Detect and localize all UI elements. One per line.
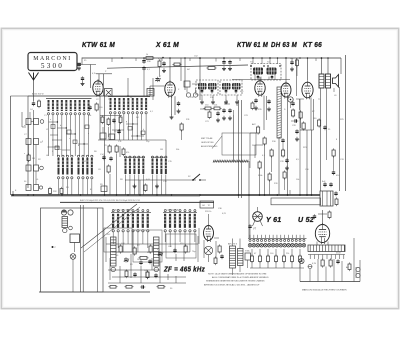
svg-text:KT 66: KT 66 — [303, 40, 323, 49]
wire V2 grid left — [150, 85, 165, 87]
trimmer capacitor C19 — [124, 258, 128, 260]
svg-text:C44 310p S1b: C44 310p S1b — [166, 210, 180, 212]
wire screen riser x128 — [127, 78, 129, 96]
loudspeaker LS1 — [333, 75, 339, 88]
resistor R26 — [149, 246, 152, 252]
coil bank L4 bandswitch coils B — [77, 155, 79, 157]
resistor R30 — [146, 272, 149, 278]
capacitor C18 — [173, 249, 176, 251]
svg-text:10k: 10k — [296, 179, 299, 181]
svg-text:A 100 300 W: A 100 300 W — [32, 93, 44, 96]
tube V4 DH63M detector — [281, 83, 291, 97]
trimmer capacitor C17 — [158, 252, 162, 254]
wire V4V5 link — [299, 99, 301, 130]
coil bank L2 RF coils — [108, 96, 150, 98]
dial cord doubles — [80, 205, 82, 292]
component group left d — [26, 185, 31, 191]
coil bank L1 aerial coils — [46, 98, 92, 100]
svg-text:x: x — [24, 153, 25, 155]
wire V2 anode riser — [169, 58, 171, 82]
capacitor C1 aerial — [32, 102, 35, 104]
capacitor C3 V1 — [88, 106, 91, 108]
osc coupling cluster — [184, 81, 190, 87]
wire V1 anode riser — [98, 74, 100, 83]
wire secondary chassis line — [60, 201, 214, 203]
wire osc line vertical — [233, 115, 235, 161]
resistor R34 PSU — [321, 260, 324, 266]
resistor R11 HT dropper — [146, 57, 153, 60]
wire V1 right link — [96, 73, 112, 75]
pilot lamp LP1 — [70, 254, 76, 260]
svg-text:2M: 2M — [252, 145, 255, 147]
wire V5 screen pair — [306, 130, 308, 195]
wire osc bank drops — [112, 232, 114, 244]
title box MARCONI 5300 — [28, 53, 77, 71]
component cluster V1 grid — [81, 58, 83, 65]
junction dot bus left — [12, 194, 14, 196]
wire rectifier legs — [316, 242, 318, 246]
svg-text:GEKN SPOEL: GEKN SPOEL — [201, 142, 215, 144]
resistor R36 bleeder — [348, 264, 351, 270]
capacitor C13 det — [291, 102, 294, 104]
capacitor C12 — [285, 159, 288, 161]
svg-text:MET TR AE: MET TR AE — [201, 137, 213, 140]
svg-text:VT: VT — [253, 228, 257, 231]
jack socket J1 — [288, 97, 293, 102]
svg-text:10k: 10k — [88, 115, 91, 117]
svg-text:U 52: U 52 — [298, 217, 314, 224]
svg-text:500k: 500k — [258, 175, 262, 177]
svg-text:ALLE CONDENSATOREN IN uF TENZI: ALLE CONDENSATOREN IN uF TENZIJ ANDERS V… — [212, 276, 269, 279]
potentiometer VR1 volume — [277, 87, 281, 138]
mains connector — [356, 267, 360, 271]
resistor network cluster mid — [205, 107, 211, 110]
capacitor C15 — [295, 130, 298, 132]
switch jogs left — [49, 121, 58, 123]
resistor R21 det load — [292, 110, 295, 116]
coil bank L3 bandswitch coils A — [57, 155, 59, 157]
svg-text:R31 1k: R31 1k — [205, 211, 211, 213]
coupling unit left c — [26, 165, 31, 171]
wire rectifier top — [322, 210, 324, 225]
switch field clutter left — [55, 146, 59, 150]
group frame PSU — [271, 198, 321, 205]
svg-text:22k: 22k — [286, 253, 289, 255]
tuning coil stack — [62, 217, 68, 228]
IF transformer T1 dashed can — [196, 80, 218, 95]
wire switch drop — [139, 180, 141, 195]
ground sym T2 — [225, 100, 227, 102]
capacitor C23 — [154, 274, 157, 276]
wire V2 drops — [171, 96, 173, 115]
resistor R15 — [263, 138, 266, 144]
component jumble mixer grid — [101, 117, 104, 123]
group outline osc C — [166, 234, 196, 258]
junction box end — [200, 201, 214, 208]
tube V7 Y61 magic eye — [253, 212, 263, 222]
svg-text:Y 61: Y 61 — [266, 217, 281, 224]
small parts row y287 — [110, 286, 116, 289]
svg-text:MARCONI 5300 ALLE RECHTEN VOOR: MARCONI 5300 ALLE RECHTEN VOORBEH. — [302, 289, 347, 292]
resistor R23 bias — [302, 123, 305, 129]
resistor R20 — [283, 172, 286, 178]
capacitor C5 HT decoupling — [142, 60, 145, 62]
component right of TS — [245, 253, 251, 260]
capacitor C11 — [281, 139, 284, 141]
svg-text:TO: TO — [208, 205, 211, 207]
svg-text:1k: 1k — [146, 54, 148, 56]
svg-text:AFC 73 S: AFC 73 S — [228, 243, 238, 246]
resistor R1 — [27, 155, 30, 161]
resistor R3 on bus — [60, 189, 63, 194]
svg-text:S1c: S1c — [58, 149, 61, 151]
wafer drop resistors — [251, 249, 253, 256]
wire anode link under IF cans — [232, 79, 290, 81]
resistor R17 — [258, 162, 261, 168]
ground sym L6 — [156, 184, 158, 186]
capacitor C22 — [133, 273, 136, 275]
resistor R2 on bus — [49, 189, 52, 194]
component cluster V2 top — [158, 61, 161, 67]
wire gang right edge — [97, 208, 99, 292]
svg-text:10k: 10k — [214, 105, 217, 107]
svg-text:AFREGELVOLGORDE ZIE BLAD 2 46: AFREGELVOLGORDE ZIE BLAD 2 465 KHZ - LAN… — [204, 284, 260, 287]
ground sym L5 — [134, 184, 136, 186]
padder stack A — [111, 237, 117, 266]
wire V4 anode riser — [285, 58, 287, 83]
coupling unit left b — [26, 139, 31, 145]
wire V5 anode riser — [307, 58, 309, 81]
IF transformer T2 dashed can — [220, 80, 242, 95]
switch S2 wave change — [125, 179, 196, 181]
wire V4 drop — [287, 97, 289, 195]
mains transformer secondary — [308, 254, 345, 256]
resistor R33 — [214, 258, 217, 264]
hatched cable run — [213, 160, 214, 163]
wire PSU bottom rail — [300, 281, 360, 283]
wire RF section top rail — [28, 95, 150, 97]
switch field clutter mid — [112, 129, 124, 131]
svg-text:6,3V: 6,3V — [312, 263, 317, 265]
resistor R29 — [125, 271, 128, 277]
capacitor C21 — [148, 260, 151, 262]
svg-text:50k: 50k — [176, 149, 179, 151]
wire TS wiring — [232, 239, 234, 247]
padder stack B — [154, 237, 160, 266]
svg-text:h: h — [143, 129, 144, 131]
wire left column stem — [33, 110, 35, 184]
junction dots ground bus — [27, 194, 29, 196]
capacitor C25 eye — [248, 225, 251, 227]
resistor R7 — [107, 166, 110, 172]
capacitor C10 V3 — [267, 100, 270, 102]
tube V2 X61M mixer — [165, 82, 175, 96]
terminal strip TS2 — [238, 249, 244, 266]
wire T1 T2 stubs — [201, 95, 203, 100]
svg-text:SPANNINGEN GEMETEN MET AVO-MET: SPANNINGEN GEMETEN MET AVO-METER TEGEN C… — [206, 279, 265, 282]
group outline osc B — [133, 230, 162, 262]
svg-text:AVC: AVC — [252, 123, 257, 126]
svg-text:g: g — [126, 121, 127, 123]
capacitor C27 bypass — [323, 126, 326, 128]
capacitor C9 V3 — [254, 99, 257, 101]
svg-text:x: x — [157, 249, 158, 251]
svg-text:4,7k: 4,7k — [92, 73, 96, 75]
resistor R22 grid leak — [299, 112, 302, 118]
wire V6 connections — [208, 214, 210, 224]
ground sym T1 — [201, 100, 203, 102]
resistor R37 cathode — [318, 120, 321, 126]
wire L3 L4 to bus — [58, 179, 60, 195]
wire speaker drops — [339, 87, 341, 191]
capacitor C26 PSU — [336, 260, 339, 262]
wire T3 T4 risers — [252, 58, 254, 64]
wire HT supply bus — [82, 57, 341, 59]
svg-text:KTW 61 M: KTW 61 M — [237, 40, 269, 49]
svg-text:NOTE : ALLE VASTE WEERSTANDEN: NOTE : ALLE VASTE WEERSTANDEN OPGEGEVEN … — [208, 273, 267, 276]
resistor R25 — [133, 248, 136, 254]
resistor R32 — [218, 246, 221, 252]
wire det verticals — [296, 58, 298, 96]
capacitor C16 pair right — [323, 183, 326, 185]
trimmer mixer grid — [156, 78, 160, 80]
wire output transformer leads — [321, 58, 323, 74]
resistor R19 — [282, 150, 285, 156]
wire output cathode drops — [320, 88, 322, 191]
coil bank L7 oscillator — [111, 211, 151, 213]
resistor R4 V1 cathode — [95, 104, 98, 110]
svg-text:47k: 47k — [126, 152, 129, 154]
wire osc lower wiring — [109, 258, 111, 280]
resistor R12 dropper — [208, 67, 215, 70]
coupling unit left a — [26, 119, 31, 125]
svg-text:d: d — [78, 145, 79, 147]
svg-text:B407 C3 100pF R12 47k C19 0,: B407 C3 100pF R12 47k C19 0,05 R19 1M C2… — [80, 200, 141, 202]
wire V5 drops — [310, 98, 312, 131]
svg-text:MARCONI: MARCONI — [33, 56, 72, 62]
wire L2 switch verticals — [110, 114, 112, 140]
wire bottom chassis line — [39, 291, 150, 293]
resistor R28 — [140, 257, 147, 260]
junction dot gang — [52, 246, 54, 248]
component negfeedback — [332, 150, 335, 156]
svg-text:KTW 61 M: KTW 61 M — [82, 40, 116, 49]
coupling box osc grid — [147, 89, 154, 97]
resistor R14 — [257, 127, 260, 133]
tube V5 KT66 output — [302, 82, 313, 98]
coupling box V1-L2 — [105, 89, 113, 97]
smoothing block — [320, 191, 333, 206]
resistor R6 — [115, 146, 118, 152]
resistor R5 — [108, 146, 111, 152]
svg-text:1M: 1M — [160, 149, 163, 151]
fuse F1 — [308, 265, 312, 269]
mains transformer T6 primary — [308, 245, 345, 252]
capacitor C7 — [222, 61, 225, 63]
resistor R10 osc grid — [180, 124, 183, 130]
resistor R8 near bus — [144, 185, 147, 191]
wire det column — [248, 161, 250, 238]
wire gang drive pair — [238, 100, 240, 198]
wire L5 L6 to bus — [125, 175, 127, 196]
coil bank L6 IF filter B — [151, 156, 153, 158]
component cluster V4 top — [290, 61, 293, 63]
wire left jog a — [21, 112, 23, 127]
svg-text:X 61 M: X 61 M — [155, 40, 179, 49]
wire left edge drop — [10, 96, 12, 195]
svg-text:ZF = 465 kHz: ZF = 465 kHz — [163, 267, 205, 274]
wire V1 cathode drop — [104, 96, 106, 195]
pilot lamp LP2 — [299, 258, 304, 263]
output transformer T5 — [319, 74, 324, 88]
drive box — [70, 234, 80, 243]
wire osc rails — [106, 243, 198, 245]
wire V3 drops — [263, 96, 265, 131]
wire mid-left drops — [119, 146, 121, 157]
wire band switch verticals — [48, 115, 50, 156]
junction dots HT bus — [121, 57, 123, 59]
wire chassis ground bus — [11, 194, 320, 196]
wire left drop 2 — [27, 96, 29, 188]
resistor R18 — [268, 174, 271, 180]
wire PSU verticals — [299, 264, 301, 282]
top bus stubs — [111, 58, 113, 62]
dial pointer diagonal — [81, 204, 137, 248]
svg-text:1k: 1k — [137, 259, 139, 261]
svg-text:GO: GO — [202, 205, 206, 207]
wire V1 stem — [99, 96, 101, 140]
svg-text:350V: 350V — [336, 253, 341, 255]
coil bank L5 IF filter A — [124, 156, 126, 158]
group outline AVC — [222, 133, 256, 155]
resistor R24 — [119, 246, 122, 252]
terminal strip TS1 — [230, 246, 236, 268]
svg-text:OSC: OSC — [106, 234, 111, 236]
resistor R27 — [184, 246, 187, 252]
resistor R31 — [146, 272, 149, 278]
resistor R16 — [270, 150, 273, 156]
gang capacitor CV1 — [61, 210, 66, 215]
capacitor C4 — [109, 157, 112, 159]
tube V8 U52 rectifier — [315, 225, 329, 243]
svg-text:5300: 5300 — [41, 62, 64, 70]
resistor R35 PSU — [329, 260, 332, 266]
antenna — [29, 73, 39, 81]
wire osc coupling — [165, 140, 167, 156]
capacitor C24 — [220, 255, 223, 257]
capacitor C8 pair — [222, 109, 225, 111]
resistor R13 V3 cathode — [251, 103, 254, 109]
svg-text:AFGESTEMD 465: AFGESTEMD 465 — [201, 145, 218, 148]
socket below V6 — [204, 246, 212, 254]
tube V3 KTW61M IF amplifier — [255, 81, 265, 95]
IF transformer T3 T4 dashed can — [251, 64, 281, 81]
component near bus x103 — [101, 186, 107, 192]
tube V1 KTW61M RF amplifier — [93, 81, 103, 95]
coil bank L8 oscillator — [163, 211, 197, 213]
capacitor C14 coupling — [294, 119, 296, 122]
wire screen supply bus — [107, 65, 248, 68]
band switch S1 wafer — [248, 237, 307, 239]
tuning gang enclosure — [41, 208, 104, 292]
svg-text:c: c — [69, 138, 70, 140]
svg-text:1k: 1k — [236, 105, 238, 107]
wire right links — [299, 130, 301, 195]
group outline osc A — [104, 228, 132, 252]
capacitor C6 screen decoupling — [199, 58, 201, 100]
wire AGC links — [250, 132, 256, 134]
capacitor C20 tracking — [139, 261, 142, 263]
wire V3 anode — [259, 77, 261, 81]
tube V6 AF triode — [204, 226, 214, 241]
svg-text:DH 63 M: DH 63 M — [271, 40, 298, 49]
